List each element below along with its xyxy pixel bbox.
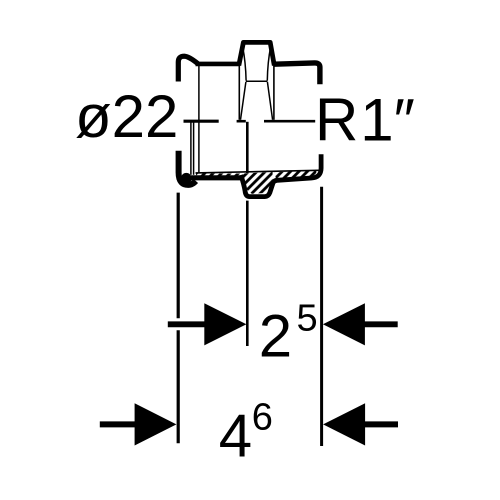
- socket bottom wall line (section): [191, 175, 241, 180]
- hex nut outline: [239, 42, 274, 65]
- hex lower-left flat edge: [241, 82, 246, 120]
- hex nut left side thin: [238, 64, 240, 120]
- hatch: body trapezoid: [241, 172, 273, 194]
- dim 25 left arrow: [204, 303, 246, 345]
- O-ring (section): [181, 173, 192, 184]
- hex nut right side thin: [273, 64, 275, 120]
- hatch: thread wall band: [275, 170, 317, 179]
- svg-text:2: 2: [259, 303, 292, 370]
- dim 25 left tail: [168, 321, 205, 327]
- socket end face line 1 (section): [190, 122, 192, 175]
- extension line B upper segment: [246, 122, 249, 173]
- svg-text:5: 5: [297, 298, 318, 340]
- svg-text:1″: 1″: [360, 87, 415, 154]
- svg-text:4: 4: [219, 403, 252, 470]
- body step, trapezoid and thread wall outline with right end face (section): [241, 154, 321, 196]
- dim 46 right arrow: [323, 403, 365, 445]
- bead inner edge thin vertical: [198, 64, 200, 173]
- dim 25 right tail: [365, 321, 398, 327]
- section inner top edge: [196, 170, 320, 173]
- socket top outline line: [196, 62, 241, 67]
- centerline leader to diameter label: [184, 120, 219, 123]
- centerline leader to thread label: [264, 120, 315, 123]
- hex lower-right flat edge: [267, 82, 272, 120]
- dim 46 left tail: [100, 421, 136, 427]
- dim 46 right tail: [365, 421, 398, 427]
- hex chamfer curve right: [267, 47, 270, 81]
- svg-text:6: 6: [252, 397, 273, 439]
- extension line C: [320, 187, 323, 446]
- extension line A lower segment: [177, 330, 180, 443]
- socket end face line 2 (section): [193, 122, 195, 175]
- dim 25 right arrow: [323, 303, 365, 345]
- svg-text:R: R: [315, 87, 358, 154]
- extension line B lower segment: [246, 201, 249, 346]
- dim 46 left arrow: [135, 403, 177, 445]
- svg-text:ø22: ø22: [75, 83, 178, 150]
- bead curl (section, bottom half): [179, 151, 196, 185]
- thread top outline and right end face (top half): [274, 63, 320, 84]
- hatch: socket thin wall strip: [196, 174, 241, 176]
- hex chamfer curve left: [243, 47, 247, 81]
- extension line A upper segment: [177, 193, 180, 319]
- centerline segment under nut: [237, 120, 246, 123]
- press-end bead curl (top half outline): [178, 56, 198, 81]
- hex mid line: [246, 80, 268, 82]
